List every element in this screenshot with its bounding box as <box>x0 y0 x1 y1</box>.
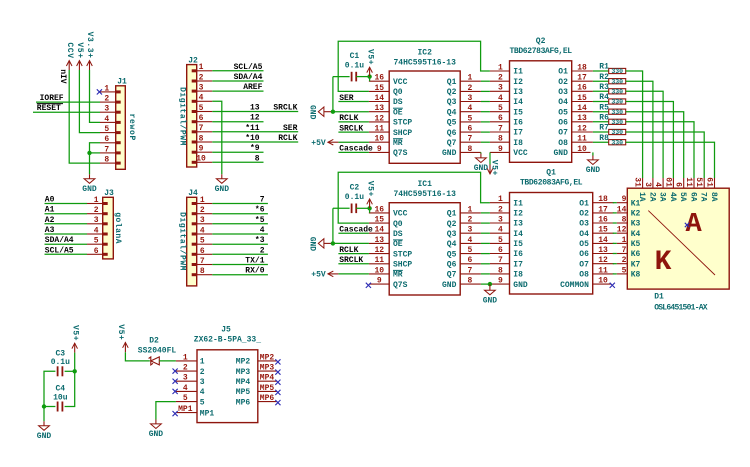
driver Q1 body <box>510 169 593 294</box>
Q2 pin 18 (O1) <box>558 63 593 76</box>
svg-text:SCL/A5: SCL/A5 <box>45 246 74 255</box>
wire RESET to J1 pin3 <box>33 111 100 113</box>
svg-text:MP3: MP3 <box>236 368 251 377</box>
IC1 pin 11 (SHCP) <box>369 256 413 269</box>
svg-text:VCC: VCC <box>393 78 408 87</box>
resistor R8 <box>599 134 625 147</box>
svg-text:TX/1: TX/1 <box>245 257 264 266</box>
wire Q2 O2 to R2 <box>593 80 609 82</box>
Q1 pin 17 (O2) <box>579 205 614 218</box>
svg-text:4: 4 <box>653 182 662 187</box>
svg-text:MR: MR <box>393 139 403 148</box>
wire/label A0 to J3 pin 1 <box>45 196 88 205</box>
wire/label A1 to J3 pin 2 <box>45 206 88 215</box>
svg-text:MP5: MP5 <box>260 384 275 393</box>
svg-text:330: 330 <box>611 78 623 85</box>
svg-text:SER: SER <box>339 94 354 103</box>
Q2 pin 4 (I4) <box>490 94 523 107</box>
svg-text:7: 7 <box>468 135 473 144</box>
IC2 pin 7 (Q7) <box>447 135 481 148</box>
svg-text:31: 31 <box>633 177 642 187</box>
svg-text:I4: I4 <box>513 230 523 239</box>
svg-text:1: 1 <box>104 84 109 93</box>
Q1 pin 7 (I7) <box>490 256 523 269</box>
Q2 pin 14 (O5) <box>558 104 593 117</box>
wire IC2 Q0 loop to Q2 I1 <box>338 41 490 91</box>
no-connect J5 MP6 <box>275 400 280 405</box>
svg-text:7A: 7A <box>699 192 708 202</box>
power flag +5V J1 <box>75 42 84 70</box>
wire ground rail down (J1) <box>89 153 91 174</box>
D1 pin 7 (K6) <box>617 246 641 259</box>
svg-text:R1: R1 <box>599 63 609 72</box>
svg-text:C4: C4 <box>55 385 65 394</box>
svg-text:4: 4 <box>200 226 205 235</box>
connector J4 pin 4 <box>192 226 213 235</box>
svg-text:3A: 3A <box>658 192 667 202</box>
svg-text:3: 3 <box>199 84 204 93</box>
connector J1 body <box>116 78 136 170</box>
wire IC2 GND pin8 down <box>480 152 482 153</box>
svg-text:SRCLK: SRCLK <box>339 256 363 265</box>
IC1 pin 16 (VCC) <box>369 205 408 218</box>
svg-text:OSL6451501-AX: OSL6451501-AX <box>654 303 708 312</box>
svg-text:18: 18 <box>577 63 587 72</box>
svg-text:330: 330 <box>611 68 623 75</box>
svg-text:O1: O1 <box>558 68 568 77</box>
D1 anode letter A <box>685 210 703 240</box>
connector J2 pin 2 <box>192 73 213 82</box>
svg-text:1: 1 <box>622 236 627 245</box>
wire R6 to D1 A6 <box>626 122 694 178</box>
svg-text:1: 1 <box>468 205 473 214</box>
svg-text:2: 2 <box>260 246 265 255</box>
svg-text:O4: O4 <box>558 98 568 107</box>
svg-text:8: 8 <box>498 266 503 275</box>
Q1 pin 11 (O8) <box>579 266 614 279</box>
svg-text:9: 9 <box>199 145 204 154</box>
ground GND J2 <box>215 174 230 194</box>
svg-text:MP3: MP3 <box>260 364 275 373</box>
Q1 pin 18 (O1) <box>579 195 614 208</box>
svg-text:6: 6 <box>200 247 205 256</box>
connector J1 pin 5 <box>100 125 121 134</box>
svg-text:OE: OE <box>393 108 403 117</box>
svg-text:8: 8 <box>200 267 205 276</box>
wire IC2 Q5 to Q2 I6 <box>481 121 490 123</box>
no-connect J5 MP2 <box>275 359 280 364</box>
svg-text:5: 5 <box>199 104 204 113</box>
D1 pin 12 (K4) <box>617 226 641 239</box>
J5 pin 5 <box>176 394 205 407</box>
svg-text:3: 3 <box>200 378 205 387</box>
svg-text:6: 6 <box>674 182 683 187</box>
svg-text:O8: O8 <box>558 139 568 148</box>
svg-text:MP4: MP4 <box>236 378 251 387</box>
wire/label TX/1 (J4 pin 7) <box>212 257 268 266</box>
svg-text:GND: GND <box>513 281 528 290</box>
no-connect Q1 COMMON <box>610 283 615 288</box>
wire R1 to D1 A1 <box>626 71 643 178</box>
IC1 pin 9 (Q7S) <box>369 277 408 290</box>
connector J3 pin 2 <box>87 206 108 215</box>
wire Q2 O6 to R6 <box>593 121 609 123</box>
svg-text:J1: J1 <box>117 78 127 87</box>
wire C2 left plate to GND rail <box>333 207 350 209</box>
svg-text:12: 12 <box>250 114 260 123</box>
svg-text:I1: I1 <box>513 199 523 208</box>
svg-text:SDA/A4: SDA/A4 <box>234 73 263 82</box>
svg-text:3: 3 <box>200 216 205 225</box>
IC1 pin 8 (GND) <box>442 277 481 290</box>
svg-text:V5+: V5+ <box>70 325 79 341</box>
svg-text:01: 01 <box>663 177 672 187</box>
svg-text:2: 2 <box>183 364 188 373</box>
svg-text:2: 2 <box>468 216 473 225</box>
connector J2 pin 4 <box>192 94 213 103</box>
power flag +5V IC1 MR <box>311 271 338 280</box>
svg-text:2: 2 <box>200 368 205 377</box>
svg-text:6A: 6A <box>688 192 697 202</box>
svg-text:12: 12 <box>374 246 384 255</box>
svg-text:TBD62083AFG,EL: TBD62083AFG,EL <box>520 179 583 188</box>
D1 anode/cathode divider line <box>648 211 715 275</box>
svg-text:I1: I1 <box>513 68 523 77</box>
svg-text:Q7S: Q7S <box>393 149 408 158</box>
J5 pin MP2 <box>236 353 277 366</box>
wire +5V rail to C3 <box>74 353 76 372</box>
J5 pin 3 <box>176 374 205 387</box>
Q1 pin 6 (I6) <box>490 246 523 259</box>
wire IC1 Q6 to Q1 I7 <box>481 263 490 265</box>
svg-text:3: 3 <box>94 216 99 225</box>
svg-text:GND: GND <box>586 166 601 175</box>
IC2 pin 16 (VCC) <box>369 74 408 87</box>
svg-text:3: 3 <box>498 215 503 224</box>
wire left rail to ground <box>43 407 45 422</box>
svg-text:IC1: IC1 <box>417 180 432 189</box>
svg-text:I3: I3 <box>513 220 523 229</box>
wire Q1 O2 to D1 K2 <box>613 212 617 214</box>
svg-text:1: 1 <box>199 63 204 72</box>
svg-text:5: 5 <box>498 104 503 113</box>
IC1 pin 10 (MR) <box>369 266 403 279</box>
wire C1 right plate to +5V node <box>356 76 369 78</box>
svg-text:V5+: V5+ <box>116 324 125 340</box>
svg-text:7: 7 <box>200 257 205 266</box>
capacitor C1 <box>345 52 364 82</box>
no-connect J5 pin 4 <box>173 389 178 394</box>
svg-text:RX/0: RX/0 <box>245 267 264 276</box>
svg-text:10: 10 <box>374 266 384 275</box>
resistor R5 <box>599 103 625 116</box>
IC1 pin 6 (Q6) <box>447 256 481 269</box>
Q2 pin 7 (I7) <box>490 124 523 137</box>
wire/label A2 to J3 pin 3 <box>45 216 88 225</box>
connector J3 pin 3 <box>87 216 108 225</box>
svg-text:4: 4 <box>498 94 503 103</box>
svg-text:6: 6 <box>199 114 204 123</box>
svg-text:15: 15 <box>374 84 384 93</box>
svg-text:Q7: Q7 <box>447 139 457 148</box>
connector J3 body <box>103 189 122 259</box>
svg-text:5: 5 <box>622 266 627 275</box>
wire J2 pin4 to ground <box>212 101 222 174</box>
svg-text:*6: *6 <box>255 206 265 215</box>
no-connect J5 MP1 <box>173 411 178 416</box>
ground GND IC2 OE <box>308 105 333 120</box>
Q2 pin 16 (O3) <box>558 84 593 97</box>
IC2 pin 11 (SHCP) <box>369 125 413 138</box>
svg-text:MP2: MP2 <box>236 358 251 367</box>
wire Q2 O3 to R3 <box>593 90 609 92</box>
svg-text:11: 11 <box>577 135 587 144</box>
wire Q1 O8 to D1 K8 <box>613 273 617 275</box>
svg-text:9: 9 <box>377 145 382 154</box>
wire/label *6 (J4 pin 2) <box>212 206 268 215</box>
wire IC1 GND to Q1 GND <box>481 283 490 285</box>
svg-text:16: 16 <box>577 84 587 93</box>
wire/label 12 (J2 pin6) <box>212 114 263 123</box>
svg-text:61: 61 <box>705 177 714 187</box>
svg-text:O2: O2 <box>558 78 568 87</box>
junction +5V node at IC2 VCC <box>367 74 371 78</box>
svg-text:K1: K1 <box>631 199 641 208</box>
Q1 pin 12 (O7) <box>579 256 614 269</box>
svg-text:10: 10 <box>598 277 608 286</box>
resistor R2 <box>599 73 625 86</box>
D1 pin 10 (A4) <box>663 177 676 202</box>
svg-text:1: 1 <box>200 358 205 367</box>
svg-text:3: 3 <box>643 182 652 187</box>
svg-text:11: 11 <box>374 256 384 265</box>
svg-text:golanA: golanA <box>113 212 122 244</box>
connector J2 pin 1 <box>192 63 213 72</box>
svg-text:4: 4 <box>94 226 99 235</box>
svg-text:R2: R2 <box>599 73 609 82</box>
ground GND IC2 <box>474 154 489 174</box>
svg-text:4: 4 <box>104 115 109 124</box>
svg-text:I8: I8 <box>513 271 523 280</box>
svg-text:*3: *3 <box>255 236 265 245</box>
connector J4 body <box>178 189 198 286</box>
connector J4 pin 3 <box>192 216 213 225</box>
svg-text:K8: K8 <box>631 271 641 280</box>
wire/label SCL/A5 to J3 pin 6 <box>45 246 88 255</box>
svg-text:10: 10 <box>196 155 206 164</box>
svg-text:SDA/A4: SDA/A4 <box>45 236 74 245</box>
svg-text:OE: OE <box>393 240 403 249</box>
svg-text:K6: K6 <box>631 250 641 259</box>
wire IC1 Q0 loop to Q1 I1 <box>338 172 490 223</box>
no-connect J5 pin 2 <box>173 369 178 374</box>
IC1 pin 15 (Q0) <box>369 216 403 229</box>
wire IC1 Q3 to Q1 I4 <box>481 232 490 234</box>
Q1 pin 5 (I5) <box>490 236 523 249</box>
svg-text:Q3: Q3 <box>447 230 457 239</box>
IC2 pin 10 (MR) <box>369 135 403 148</box>
D1 pin 11 (A6) <box>684 177 697 202</box>
wire IC1 Q2 to Q1 I3 <box>481 222 490 224</box>
wire C3 right plate <box>65 370 75 372</box>
IC2 pin 5 (Q5) <box>447 114 481 127</box>
wire GND symbol to IC1 pin13 <box>333 242 369 244</box>
svg-text:1: 1 <box>94 196 99 205</box>
Q2 pin 15 (O4) <box>558 94 593 107</box>
svg-text:Q7S: Q7S <box>393 281 408 290</box>
svg-text:6: 6 <box>94 247 99 256</box>
wire C1/GND rail down to IC2 OE node <box>332 77 334 112</box>
svg-text:330: 330 <box>611 119 623 126</box>
svg-text:6: 6 <box>104 135 109 144</box>
wire IC2 Q3 to Q2 I4 <box>481 101 490 103</box>
wire J1 pin7 to ground rail <box>90 152 101 154</box>
connector J2 pin 9 <box>192 145 213 154</box>
connector J3 pin 4 <box>87 226 108 235</box>
svg-text:*10: *10 <box>245 134 260 143</box>
wire Q1 O5 to D1 K5 <box>613 242 617 244</box>
svg-text:4: 4 <box>260 226 265 235</box>
Q1 pin 1 (I1) <box>490 195 523 208</box>
svg-text:4: 4 <box>199 94 204 103</box>
wire +5V to IC1 MR <box>338 273 369 275</box>
svg-text:13: 13 <box>577 114 587 123</box>
svg-text:5: 5 <box>468 114 473 123</box>
connector J1 pin 7 <box>100 145 121 154</box>
svg-text:I5: I5 <box>513 108 523 117</box>
IC2 pin 6 (Q6) <box>447 125 481 138</box>
Q1 pin 8 (I8) <box>490 266 523 279</box>
svg-text:18: 18 <box>598 195 608 204</box>
svg-text:AREF: AREF <box>243 83 262 92</box>
Q1 pin 14 (O5) <box>579 236 614 249</box>
svg-text:SRCLK: SRCLK <box>273 104 297 113</box>
ground GND Q1 <box>483 286 498 306</box>
J5 pin 1 <box>176 353 205 366</box>
svg-text:14: 14 <box>374 94 384 103</box>
power flag +5V (J5) <box>116 324 128 352</box>
LED matrix D1 body <box>627 188 729 312</box>
svg-text:2A: 2A <box>647 192 656 202</box>
svg-text:C1: C1 <box>350 52 360 61</box>
svg-text:SRCLK: SRCLK <box>339 124 363 133</box>
Q2 pin 11 (O8) <box>558 135 593 148</box>
svg-text:1: 1 <box>183 353 188 362</box>
svg-text:74HC595T16-13: 74HC595T16-13 <box>393 190 456 199</box>
ground GND Q2 <box>586 156 601 176</box>
svg-text:MP6: MP6 <box>260 394 275 403</box>
svg-text:8A: 8A <box>709 192 718 202</box>
svg-text:16: 16 <box>598 215 608 224</box>
svg-text:6: 6 <box>468 125 473 134</box>
svg-text:I2: I2 <box>513 210 523 219</box>
svg-text:4: 4 <box>468 236 473 245</box>
wire IOREF to J1 pin2 <box>36 101 100 103</box>
svg-text:MP5: MP5 <box>236 388 251 397</box>
wire Q2 VCC to +5V <box>489 152 491 164</box>
wire/label *5 (J4 pin 3) <box>212 216 268 225</box>
svg-text:12: 12 <box>374 114 384 123</box>
driver Q2 body <box>509 37 572 162</box>
IC1 pin 7 (Q7) <box>447 266 481 279</box>
svg-text:MP6: MP6 <box>236 398 251 407</box>
svg-text:16: 16 <box>374 74 384 83</box>
connector J1 pin 3 <box>100 105 121 114</box>
connector J4 pin 7 <box>192 257 213 266</box>
svg-text:15: 15 <box>577 94 587 103</box>
svg-text:K5: K5 <box>631 240 641 249</box>
connector J1 pin 6 <box>100 135 121 144</box>
svg-text:Q0: Q0 <box>393 220 403 229</box>
svg-text:GND: GND <box>37 432 52 441</box>
svg-text:10u: 10u <box>53 393 68 402</box>
svg-text:DS: DS <box>393 230 403 239</box>
D1 pin 4 (A3) <box>653 178 666 202</box>
wire/label *9 (J2 pin9) <box>212 144 263 153</box>
svg-text:14: 14 <box>617 205 627 214</box>
shift register IC1 body <box>389 180 460 295</box>
svg-text:V5+: V5+ <box>75 42 84 58</box>
wire/label 2 (J4 pin 6) <box>212 246 268 255</box>
svg-text:330: 330 <box>611 109 623 116</box>
wire/label RCLK to IC1 STCP <box>338 246 369 255</box>
svg-text:5A: 5A <box>678 192 687 202</box>
wire Q2 GND pin10 down <box>592 152 594 155</box>
svg-text:5: 5 <box>183 394 188 403</box>
svg-text:GND: GND <box>442 149 457 158</box>
wire/labels *11 SER (J2 pin7) <box>212 124 298 133</box>
svg-text:13: 13 <box>598 246 608 255</box>
J5 pin 2 <box>176 364 205 377</box>
wire Q2 O7 to R7 <box>593 131 609 133</box>
svg-text:J4: J4 <box>188 189 198 198</box>
wire +5V node to IC2 pin16 <box>369 77 371 82</box>
resistor R4 <box>599 93 625 106</box>
svg-text:IC2: IC2 <box>417 48 432 57</box>
junction Q1 GND node <box>488 282 492 286</box>
svg-text:SHCP: SHCP <box>393 129 412 138</box>
IC1 pin 3 (Q3) <box>447 226 481 239</box>
svg-text:GND: GND <box>442 281 457 290</box>
svg-text:9: 9 <box>377 277 382 286</box>
svg-text:VCC: VCC <box>393 210 408 219</box>
svg-text:RCLK: RCLK <box>339 246 358 255</box>
svg-text:7: 7 <box>104 145 109 154</box>
junction +5V node at IC1 VCC <box>367 206 371 210</box>
wire +5V to D2 cathode <box>125 352 149 361</box>
power flag +5V IC2 <box>365 49 374 77</box>
wire IC1 Q1 to Q1 I2 <box>481 212 490 214</box>
svg-text:R6: R6 <box>599 114 609 123</box>
J5 pin 4 <box>176 384 205 397</box>
svg-text:R4: R4 <box>599 93 609 102</box>
wire/label SRCLK to IC2 SHCP <box>338 124 369 133</box>
IC1 pin 1 (Q1) <box>447 205 481 218</box>
D1 pin 3 (A2) <box>643 178 656 202</box>
svg-text:Q4: Q4 <box>447 108 457 117</box>
svg-text:STCP: STCP <box>393 250 412 259</box>
svg-text:O6: O6 <box>558 119 568 128</box>
svg-text:12: 12 <box>577 124 587 133</box>
connector J4 pin 5 <box>192 237 213 246</box>
svg-text:13: 13 <box>374 236 384 245</box>
wire IC2 Q1 to Q2 I2 <box>481 80 490 82</box>
wire +3.3V rail to J1 pin4 <box>90 70 101 122</box>
wire IC2 Q7 to Q2 I8 <box>481 141 490 143</box>
connector J2 pin 5 <box>192 104 213 113</box>
svg-text:*5: *5 <box>255 216 265 225</box>
wire C1 left plate to GND rail <box>333 76 350 78</box>
